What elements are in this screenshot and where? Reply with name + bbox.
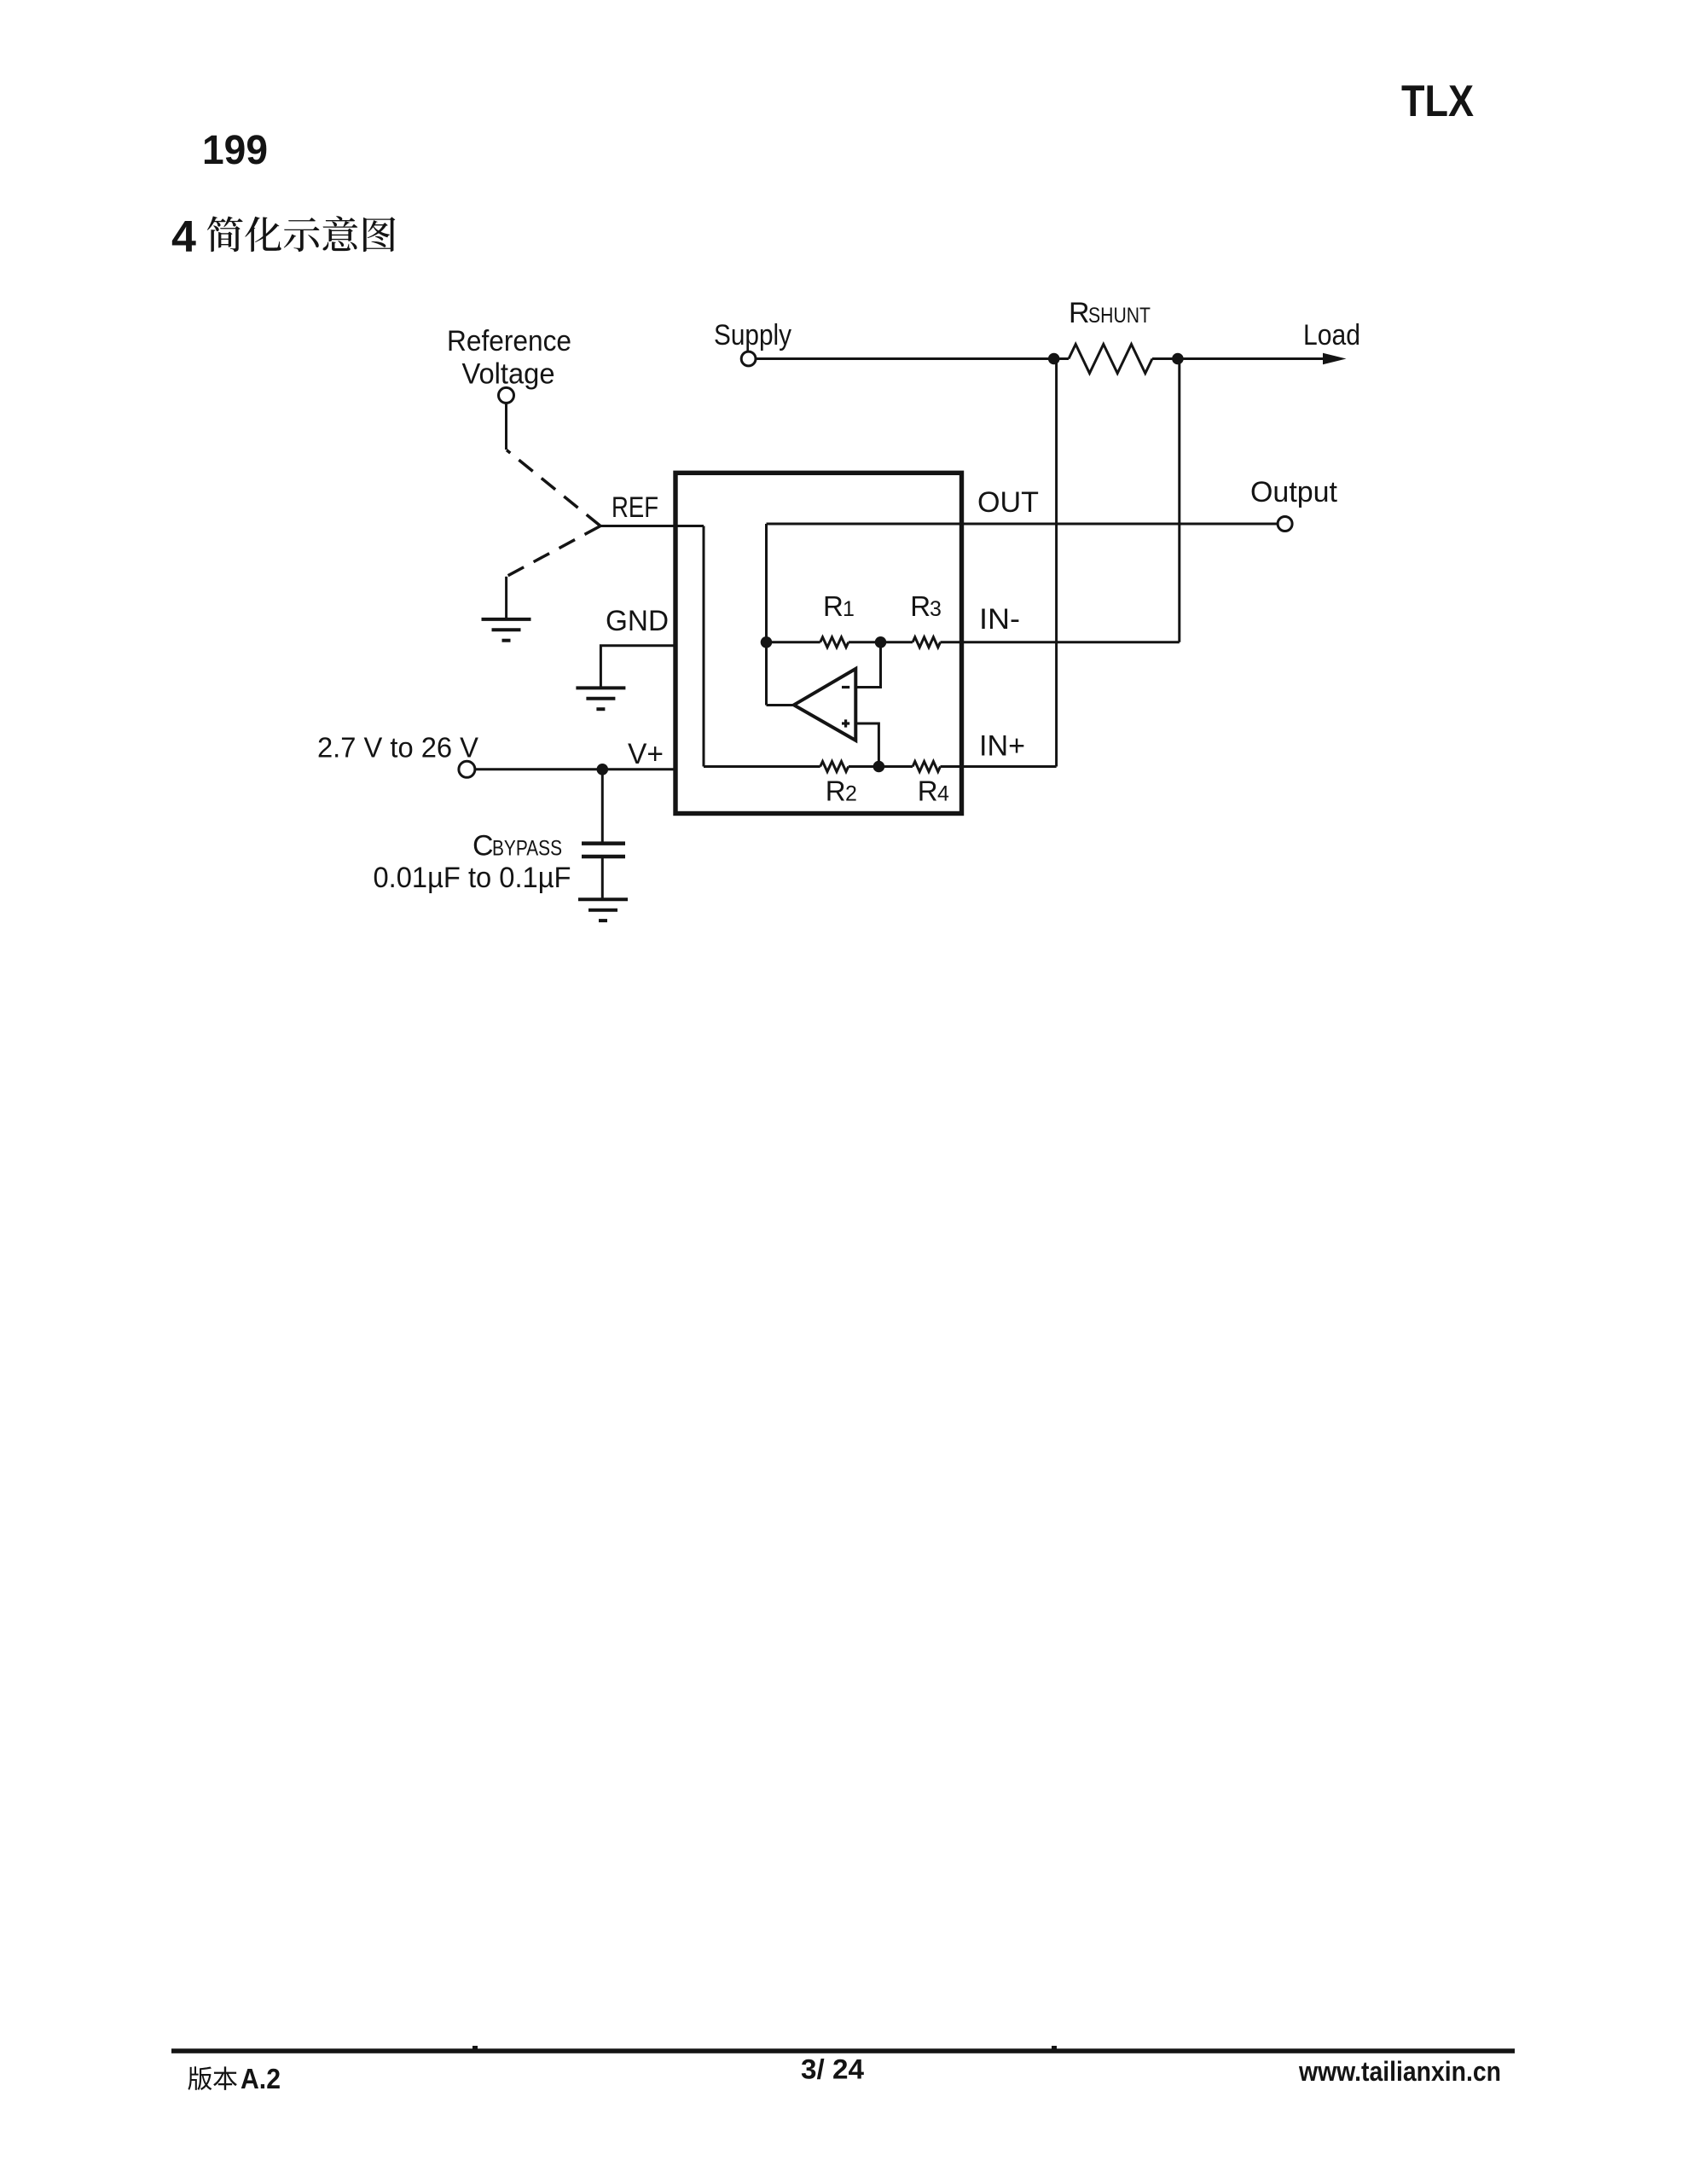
op-amp IC box U1 xyxy=(675,473,962,813)
svg-text:Output: Output xyxy=(1250,476,1338,508)
svg-text:REF: REF xyxy=(612,491,658,524)
terminal Supply xyxy=(741,351,756,366)
svg-text:C: C xyxy=(472,830,494,863)
label CBYPASS xyxy=(472,830,562,863)
footer rule xyxy=(171,2048,1515,2053)
svg-text:www.tailianxin.cn: www.tailianxin.cn xyxy=(1298,2056,1501,2087)
wire bypass upper xyxy=(601,770,604,844)
label R3 xyxy=(910,590,942,622)
op-amp plus sign xyxy=(842,719,849,727)
terminal Output xyxy=(1278,517,1292,531)
wire R1 lead left xyxy=(767,641,820,643)
svg-text:Reference: Reference xyxy=(447,325,571,357)
svg-text:R: R xyxy=(1069,297,1090,329)
wire shunt left to IN+ xyxy=(1055,359,1058,767)
svg-text:199: 199 xyxy=(202,128,268,173)
wire minus input stub xyxy=(856,642,881,688)
svg-text:TLX: TLX xyxy=(1401,77,1474,126)
junction node shunt left xyxy=(1048,353,1060,365)
svg-text:3/ 24: 3/ 24 xyxy=(801,2054,864,2085)
svg-text:4: 4 xyxy=(937,782,949,806)
svg-text:IN-: IN- xyxy=(979,603,1020,636)
wire dashed REF to ground xyxy=(507,526,600,577)
wire V+ xyxy=(475,768,675,770)
ground bypass xyxy=(578,899,628,921)
wire shunt right to IN- xyxy=(1178,359,1180,642)
ground GND pin xyxy=(576,688,625,709)
junction node plus input xyxy=(873,761,885,773)
section title 简化示意图 xyxy=(207,216,395,252)
wire shunt right lead xyxy=(1152,357,1178,360)
svg-text:R: R xyxy=(826,775,846,807)
wire ref stub upper xyxy=(505,404,507,450)
op-amp triangle xyxy=(794,669,856,741)
junction node V+ bypass xyxy=(597,764,609,775)
wire bottom row lead xyxy=(704,765,820,768)
svg-text:2: 2 xyxy=(845,782,857,806)
capacitor CBYPASS xyxy=(582,844,625,857)
svg-text:A.2: A.2 xyxy=(241,2063,281,2094)
svg-text:GND: GND xyxy=(606,605,669,637)
label RSHUNT xyxy=(1069,297,1151,329)
wire ref stub lower xyxy=(505,577,507,619)
label R2 xyxy=(826,775,857,807)
svg-text:V+: V+ xyxy=(628,738,664,770)
wire REF pin xyxy=(600,525,704,527)
resistor R3 xyxy=(913,637,940,648)
terminal Reference Voltage xyxy=(499,387,514,403)
junction node shunt right xyxy=(1172,353,1184,365)
svg-text:3: 3 xyxy=(930,597,942,621)
wire supply to shunt xyxy=(756,357,1053,360)
ground reference xyxy=(482,619,531,641)
wire plus input stub xyxy=(856,723,878,767)
label R4 xyxy=(918,775,949,807)
resistor R4 xyxy=(913,762,940,772)
footer version 版本 xyxy=(188,2066,237,2090)
svg-text:BYPASS: BYPASS xyxy=(492,837,562,861)
wire op-amp output xyxy=(767,704,794,706)
label Reference Voltage xyxy=(447,325,571,391)
wire GND pin xyxy=(600,646,675,688)
svg-text:R: R xyxy=(918,775,938,807)
wire IN+ xyxy=(964,765,1057,768)
op-amp minus sign xyxy=(842,686,849,688)
wire R3 to edge xyxy=(941,641,965,643)
wire R1 to node xyxy=(849,641,913,643)
wire bypass lower xyxy=(601,857,604,899)
svg-text:1: 1 xyxy=(843,597,855,621)
resistor R1 xyxy=(820,637,849,648)
junction node feedback xyxy=(761,636,773,648)
svg-text:R: R xyxy=(910,590,930,622)
wire OUT to output xyxy=(964,523,1278,526)
svg-text:Supply: Supply xyxy=(714,319,791,351)
wire to load xyxy=(1178,357,1325,360)
svg-text:OUT: OUT xyxy=(977,486,1039,519)
wire R2 to node xyxy=(849,765,913,768)
svg-text:Load: Load xyxy=(1303,319,1360,351)
wire REF internal vertical xyxy=(703,526,705,767)
terminal V+ supply xyxy=(459,761,475,777)
wire R4 to edge xyxy=(941,765,965,768)
label R1 xyxy=(823,590,855,622)
wire IN- xyxy=(964,641,1180,643)
svg-text:Voltage: Voltage xyxy=(462,358,555,391)
resistor R2 xyxy=(820,762,849,772)
svg-text:0.01µF to 0.1µF: 0.01µF to 0.1µF xyxy=(374,862,571,894)
resistor RSHUNT xyxy=(1069,345,1152,374)
svg-text:4: 4 xyxy=(171,212,196,262)
footer rule tick right xyxy=(1052,2046,1057,2049)
svg-text:R: R xyxy=(823,590,843,622)
wire shunt left lead xyxy=(1054,357,1069,360)
svg-text:IN+: IN+ xyxy=(979,730,1025,763)
svg-text:2.7 V to 26 V: 2.7 V to 26 V xyxy=(317,732,478,764)
svg-text:SHUNT: SHUNT xyxy=(1088,304,1151,328)
junction node minus input xyxy=(875,636,887,648)
wire feedback vertical xyxy=(765,524,768,706)
wire top row to OUT xyxy=(767,523,965,526)
arrow load xyxy=(1323,353,1347,365)
footer rule tick left xyxy=(472,2046,478,2049)
wire dashed ref to REF xyxy=(507,450,600,526)
